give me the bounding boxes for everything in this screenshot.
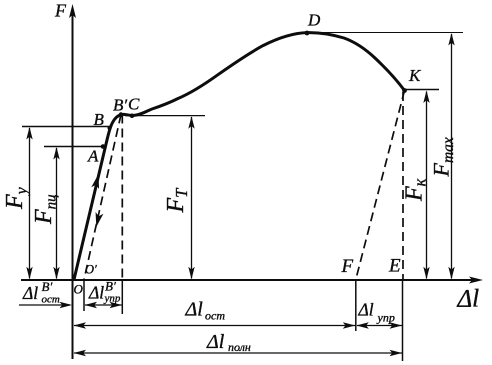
svg-text:ост: ост bbox=[205, 309, 225, 323]
svg-text:упр: упр bbox=[377, 311, 395, 325]
svg-text:FТ: FТ bbox=[163, 187, 191, 214]
level line at D bbox=[307, 32, 463, 34]
curve O-A-B-B'-C-D-K bbox=[74, 33, 405, 280]
point K bbox=[402, 88, 407, 93]
svg-text:C: C bbox=[128, 95, 140, 114]
dimension Fmax bbox=[429, 33, 458, 279]
svg-text:Δl: Δl bbox=[358, 300, 374, 320]
point C bbox=[130, 114, 135, 119]
unloading dashed line B'-O' bbox=[84, 115, 121, 280]
dimension dl-poln bbox=[74, 350, 403, 356]
point D bbox=[305, 31, 310, 36]
dimension Fpc bbox=[31, 147, 60, 279]
level tick at K bbox=[405, 89, 440, 91]
svg-text:Fк: Fк bbox=[402, 178, 430, 202]
point B bbox=[108, 126, 112, 130]
svg-text:Δl: Δl bbox=[457, 286, 480, 313]
svg-text:B′: B′ bbox=[113, 96, 127, 115]
dimension Fy bbox=[2, 127, 33, 279]
svg-text:A: A bbox=[87, 147, 99, 166]
svg-text:E: E bbox=[388, 256, 401, 277]
axis dl (horizontal) bbox=[21, 277, 483, 284]
svg-text:O: O bbox=[74, 282, 84, 297]
svg-text:Fпц: Fпц bbox=[31, 194, 60, 225]
svg-text:K: K bbox=[408, 66, 422, 85]
svg-text:Δl: Δl bbox=[206, 331, 225, 353]
level line at B bbox=[22, 126, 110, 128]
svg-text:B′: B′ bbox=[105, 279, 116, 294]
svg-text:B′: B′ bbox=[42, 279, 53, 294]
level line at A bbox=[44, 146, 103, 148]
unloading arrow on dashed line bbox=[92, 212, 103, 228]
svg-text:Δl: Δl bbox=[88, 283, 104, 303]
loading arrow on elastic line bbox=[91, 173, 102, 189]
yield level tick (top of Ft) bbox=[125, 115, 205, 117]
extension line F bbox=[355, 281, 357, 332]
dimension dl-ost-B' leader bbox=[19, 302, 72, 308]
svg-text:F: F bbox=[341, 256, 354, 277]
point A bbox=[101, 144, 106, 149]
dimension Fk bbox=[402, 91, 430, 280]
svg-text:Δl: Δl bbox=[185, 299, 204, 321]
extension line below B' bbox=[121, 281, 123, 315]
extension line O' bbox=[83, 281, 85, 312]
svg-text:ост: ост bbox=[42, 294, 60, 306]
dashed vertical below B' bbox=[121, 115, 123, 280]
dimension dl-upr bbox=[356, 322, 402, 328]
dimension Ft bbox=[163, 116, 195, 279]
point B' bbox=[119, 112, 124, 117]
dashed vertical K-E bbox=[402, 92, 404, 280]
svg-text:F: F bbox=[54, 1, 67, 21]
svg-text:Δl: Δl bbox=[22, 283, 38, 303]
svg-text:Fу: Fу bbox=[2, 186, 31, 210]
svg-text:O′: O′ bbox=[85, 263, 97, 277]
svg-text:полн: полн bbox=[228, 340, 251, 354]
extension line E bbox=[402, 281, 404, 362]
svg-text:упр: упр bbox=[104, 293, 121, 305]
dimension dl-ost bbox=[74, 322, 356, 328]
axis F (vertical) bbox=[69, 4, 76, 359]
dashed line K-F bbox=[356, 91, 405, 280]
svg-text:Fmax: Fmax bbox=[429, 137, 458, 177]
svg-text:D: D bbox=[307, 11, 321, 30]
dimension dl-upr-B' bbox=[85, 302, 123, 308]
